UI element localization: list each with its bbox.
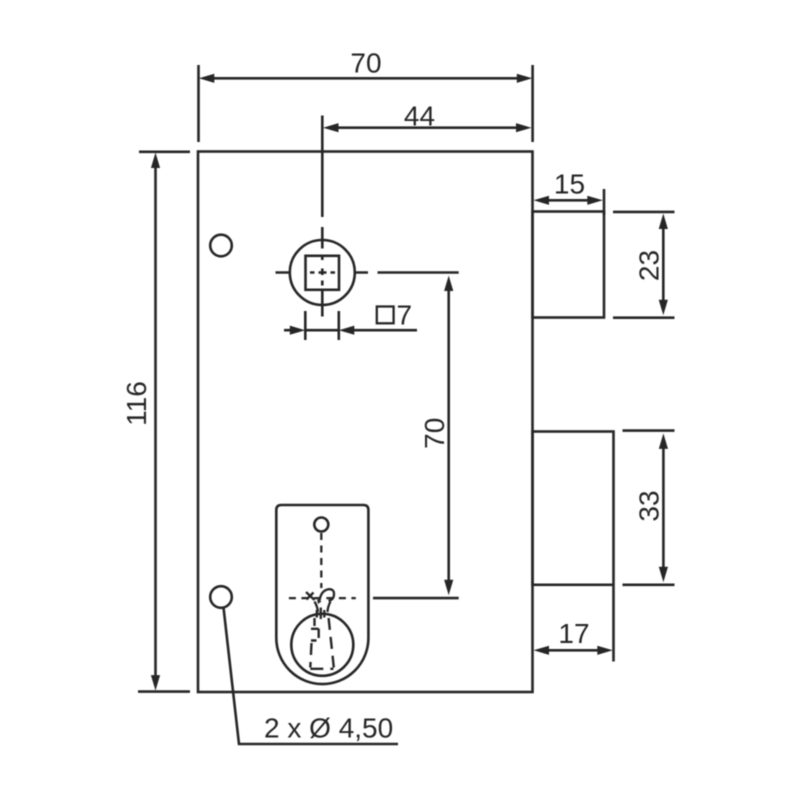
dim 23 top arrow (659, 214, 668, 230)
screw hole top (210, 235, 232, 257)
svg-text:7: 7 (397, 300, 413, 331)
leader line screw holes (224, 608, 399, 745)
svg-text:44: 44 (404, 101, 435, 132)
spindle square hole (306, 256, 340, 290)
dim 15 right arrow (587, 196, 603, 205)
svg-text:70: 70 (419, 418, 450, 449)
dim 70 vertical bottom arrow (444, 580, 453, 596)
dim 23 extension lines (613, 212, 675, 318)
dim 17 right arrow (597, 646, 613, 655)
svg-text:2 x Ø 4,50: 2 x Ø 4,50 (264, 713, 393, 744)
spindle center mark (310, 256, 335, 286)
dim 17 dimension line (547, 649, 599, 652)
dim 70 vertical top tick (378, 271, 459, 274)
dim 116 extension ticks (138, 152, 190, 692)
svg-text:33: 33 (633, 490, 664, 521)
dim 116 dimension line (154, 166, 157, 677)
dim 70 vertical top arrow (444, 276, 453, 292)
key bow profile (306, 589, 334, 619)
keyhole vertical dashed centerline (320, 533, 322, 588)
dim 17 extension line (612, 586, 615, 662)
dim 116 bottom arrow (151, 675, 160, 691)
dim 33 top arrow (659, 433, 668, 449)
cylinder circle (291, 614, 353, 676)
keyhole cutout outline (276, 505, 368, 684)
svg-text:70: 70 (350, 48, 381, 79)
keyhole horizontal dashed centerline (289, 597, 356, 599)
dim 33 bottom arrow (659, 567, 668, 583)
dim square7 right arrow (339, 326, 355, 335)
dim 70 vertical bottom tick (373, 597, 459, 600)
dim square7 extension lines (305, 311, 339, 340)
dim 33 extension lines (623, 431, 675, 585)
deadbolt box (533, 432, 614, 585)
keyhole pin circle (314, 518, 328, 532)
dim square7 dimension line (284, 329, 417, 332)
dim 116 top arrow (151, 153, 160, 169)
svg-text:15: 15 (554, 169, 585, 200)
svg-text:116: 116 (121, 381, 152, 426)
dim 15 left arrow (534, 196, 550, 205)
dim 70 vertical dimension line (447, 289, 450, 581)
dim 70 top dimension line (213, 77, 518, 80)
dim 17 left arrow (534, 646, 550, 655)
dim 15 extension line (603, 189, 606, 215)
lock case outline (198, 152, 533, 693)
spindle horizontal centerline (276, 271, 369, 274)
dim 44 left arrow (323, 123, 339, 132)
dim square7 square symbol (377, 307, 394, 324)
dim 15 dimension line (547, 199, 589, 202)
dim 23 bottom arrow (659, 300, 668, 316)
dim 33 dimension line (662, 447, 665, 568)
svg-text:23: 23 (633, 250, 664, 281)
spindle vertical centerline (321, 116, 324, 317)
svg-text:17: 17 (558, 618, 589, 649)
dim 70 top left arrow (199, 74, 215, 83)
dim 70 top extension lines (199, 65, 533, 142)
dim 44 right arrow (516, 123, 532, 132)
dim 70 top right arrow (517, 74, 533, 83)
latch faceplate box (533, 212, 605, 318)
dim 23 dimension line (662, 228, 665, 302)
spindle hub circle (290, 240, 355, 305)
screw hole bottom (210, 586, 232, 608)
dim 44 dimension line (337, 126, 517, 129)
key blade hidden outline (310, 618, 334, 669)
dim square7 left arrow (290, 326, 306, 335)
